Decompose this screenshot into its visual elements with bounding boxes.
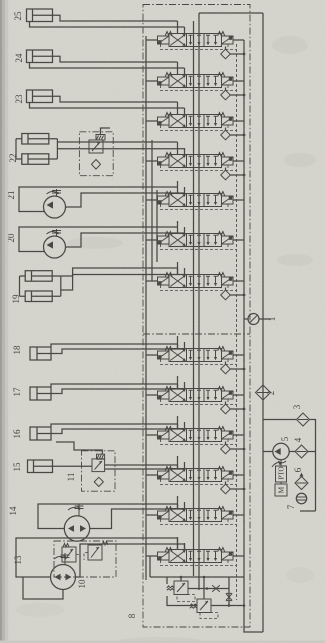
junction dots bottom section bbox=[206, 587, 209, 590]
level gauge 7 bbox=[296, 493, 306, 503]
wire: 19 lower work line bbox=[61, 275, 185, 291]
wire: 23 cap line bbox=[30, 103, 185, 109]
wire: 18 cap line bbox=[51, 344, 178, 349]
motor 20 shaft and rotation arrow bbox=[52, 229, 61, 236]
wire: motor 21 left port bbox=[19, 187, 178, 212]
wire: PTO to M link bbox=[280, 482, 282, 484]
wire: rod ends tie of 22 bbox=[56, 139, 58, 159]
valve V13 (6/3 directional control valve) bbox=[146, 537, 244, 563]
check valve below V9 bbox=[221, 402, 246, 414]
filter 2 bbox=[256, 385, 271, 400]
wire: motor 21 right port bbox=[66, 193, 185, 207]
wire: 15 rod line to unit 11 bbox=[58, 465, 178, 469]
wire: filter 4 to collector bbox=[308, 451, 316, 453]
PTO gearbox bbox=[276, 466, 287, 482]
valve V9 (6/3 directional control valve) bbox=[146, 376, 244, 402]
check valve of unit 11 bbox=[94, 477, 103, 486]
plugged port X (on horizontal) bbox=[212, 585, 220, 592]
manifold block 8 (dash-dot enclosure) bbox=[143, 5, 250, 628]
wire: 23 rod line bbox=[58, 96, 178, 102]
cylinder 22 (lower of pair) bbox=[22, 154, 58, 165]
breather 6 bbox=[295, 473, 308, 490]
wire: pump discharge bbox=[263, 451, 273, 453]
wire: cap ends tie of 22 bbox=[16, 139, 22, 159]
wire: T gallery vertical bbox=[193, 21, 195, 576]
cylinder 22 (upper of pair) bbox=[22, 134, 58, 145]
cylinder 19 (lower of pair) bbox=[25, 291, 61, 302]
cylinder 16 bbox=[30, 427, 58, 440]
wire: left routing vertical b bbox=[156, 190, 158, 262]
cylinder 23 bbox=[27, 90, 59, 103]
wire: unit 12 pilot stub bbox=[101, 128, 111, 135]
valve V8 (6/3 directional control valve) bbox=[146, 336, 244, 362]
left page edge shading bbox=[0, 0, 2, 643]
plugged port X (on vertical) bbox=[226, 593, 232, 600]
hydraulic motor 20 bbox=[44, 229, 66, 258]
wire: inlet header bbox=[150, 556, 244, 577]
cylinder 24 bbox=[27, 50, 59, 63]
wire: rod ends tie of 19 bbox=[60, 276, 62, 296]
paper grain bbox=[0, 0, 1, 1]
filter 3 bbox=[297, 413, 310, 426]
hydraulic motor 21 bbox=[44, 189, 66, 218]
check valve below V2 bbox=[221, 88, 246, 100]
pilot drain dashed line of valve V2 bbox=[161, 85, 237, 91]
wire: motor 13 right port bbox=[76, 544, 185, 577]
valve V12 (6/3 directional control valve) bbox=[146, 496, 244, 522]
pilot drain dashed line of valve V7 bbox=[161, 285, 237, 291]
pilot drain dashed line of valve V3 bbox=[161, 125, 237, 131]
filter 4 bbox=[295, 445, 308, 458]
valve unit 10 (dual crossover reliefs) enclosure bbox=[54, 541, 116, 577]
wire: top pressure header bbox=[199, 12, 263, 14]
wire: gauge tap left bbox=[244, 318, 248, 320]
wire: 22 upper work line bbox=[57, 141, 177, 143]
relief valve A of unit 10 bbox=[62, 544, 80, 563]
wire: pump pressure riser (right outer vertical) bbox=[262, 13, 264, 632]
check valve below V7 bbox=[221, 288, 246, 300]
wire: motor 20 right port bbox=[66, 233, 185, 247]
internal divider of manifold bbox=[143, 333, 250, 335]
cylinder 25 bbox=[27, 9, 59, 22]
valve V5 (6/3 directional control valve) bbox=[146, 181, 244, 207]
pilot drain dashed line of valve V5 bbox=[161, 204, 237, 210]
wire: tank collector (right bracket) bbox=[300, 420, 316, 512]
wire: unit 11 remote pilot line bbox=[56, 442, 102, 454]
main relief valve (upper) bbox=[167, 577, 195, 602]
wire: 25 cap line bbox=[30, 22, 185, 28]
wire: 24 rod line bbox=[58, 56, 178, 62]
valve V10 (6/3 directional control valve) bbox=[146, 416, 244, 442]
pilot drain dashed line of valve V6 bbox=[161, 244, 237, 250]
check valve of unit 12 bbox=[92, 160, 101, 170]
wire: 25 rod line bbox=[58, 15, 178, 21]
valve V4 (6/3 directional control valve) bbox=[146, 142, 244, 168]
wire: gauge lead right bbox=[259, 318, 271, 320]
motor 21 shaft and rotation arrow bbox=[52, 189, 61, 196]
wire: motor 13 drain loop bbox=[23, 577, 63, 599]
pilot drain dashed line of valve V11 bbox=[161, 479, 237, 485]
wire: motor 13 left port bbox=[16, 538, 178, 577]
check valve below V1 bbox=[221, 47, 246, 59]
cylinder 19 (upper of pair) bbox=[25, 271, 61, 282]
pressure gauge 1 bbox=[248, 314, 259, 325]
electric motor M bbox=[275, 484, 287, 496]
wire: 16 cap line bbox=[51, 424, 178, 429]
pilot drain dashed line of valve V8 bbox=[161, 359, 237, 365]
wire: relief A outlet with plug bbox=[188, 588, 229, 590]
relief valve of unit 12 bbox=[89, 135, 105, 154]
wire: left pilot supply vertical bbox=[145, 36, 147, 580]
wire: 18 rod line bbox=[58, 349, 184, 354]
secondary relief valve (lower) bbox=[190, 577, 218, 619]
valve V6 (6/3 directional control valve) bbox=[146, 221, 244, 247]
pilot drain dashed line of valve V10 bbox=[161, 439, 237, 445]
wire: 15 second work line bbox=[105, 468, 185, 470]
hydraulic motor 14 (bidirectional) bbox=[64, 504, 89, 541]
wire: 17 cap line bbox=[51, 384, 178, 389]
wire: return branch to filter 3 bbox=[263, 419, 297, 421]
pump 5 drive shaft bbox=[278, 460, 286, 466]
wire: 17 rod line bbox=[58, 389, 184, 394]
wire: motor 14 right port bbox=[90, 509, 185, 529]
valve V11 (6/3 directional control valve) bbox=[146, 456, 244, 482]
wire: motor 14 left port bbox=[38, 504, 178, 529]
relief valve of unit 11 bbox=[92, 454, 105, 471]
wire: 19 upper work line bbox=[61, 268, 178, 276]
pilot drain dashed line of valve V13 bbox=[161, 560, 237, 566]
check valve below V10 bbox=[221, 442, 246, 454]
cylinder 18 bbox=[30, 347, 58, 360]
wire: 16 rod line bbox=[58, 429, 184, 434]
pilot drain dashed line of valve V4 bbox=[161, 165, 237, 171]
wire: pilot drain dashed bus bbox=[236, 44, 238, 600]
check valve below V3 bbox=[221, 128, 246, 140]
pilot drain dashed line of valve V12 bbox=[161, 519, 237, 525]
wire: P gallery vertical bbox=[198, 13, 200, 590]
check valve below V4 bbox=[221, 168, 246, 180]
wire: cap ends tie of 19 bbox=[20, 276, 26, 296]
wire: left routing vertical a bbox=[151, 140, 153, 281]
wire: return collector vertical bbox=[244, 40, 263, 632]
valve unit 12 (relief + check) enclosure bbox=[79, 132, 113, 176]
cylinder 17 bbox=[30, 387, 58, 400]
wire: pump suction from filter 4 bbox=[289, 451, 295, 453]
pump 5 bbox=[273, 443, 289, 459]
pilot drain dashed line of valve V1 bbox=[161, 44, 237, 50]
check valve below V11 bbox=[221, 482, 246, 494]
valve V2 (6/3 directional control valve) bbox=[146, 62, 244, 88]
wire: motor 20 left port bbox=[19, 227, 178, 252]
hydraulic motor 13 (bidirectional) bbox=[51, 553, 76, 590]
valve V1 (6/3 directional control valve) bbox=[146, 21, 244, 47]
valve V7 (6/3 directional control valve) bbox=[146, 262, 244, 288]
valve V3 (6/3 directional control valve) bbox=[146, 102, 244, 128]
wire: relief interconnections bbox=[167, 577, 244, 606]
valve unit 11 (relief + check) enclosure bbox=[82, 451, 116, 491]
wire: 24 cap line bbox=[30, 63, 185, 69]
wire: drop from header to collector bbox=[228, 577, 230, 606]
check valve below V8 bbox=[221, 362, 246, 374]
cylinder 15 bbox=[28, 460, 59, 473]
wire: 22 lower work line bbox=[57, 148, 184, 150]
relief valve B of unit 10 bbox=[84, 542, 108, 561]
pilot drain dashed line of valve V9 bbox=[161, 399, 237, 405]
